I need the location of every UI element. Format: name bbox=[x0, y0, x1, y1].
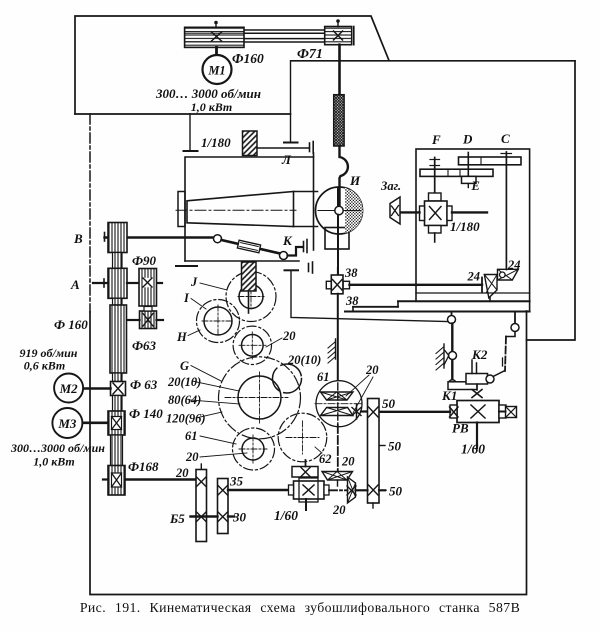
grinding spindle shaft from Ф71 bbox=[338, 45, 341, 95]
svg-text:Ф 140: Ф 140 bbox=[129, 406, 163, 421]
svg-text:20: 20 bbox=[185, 450, 199, 464]
machine outline: top motor box bbox=[75, 16, 389, 114]
svg-text:К2: К2 bbox=[471, 347, 488, 362]
gear J bbox=[226, 272, 276, 322]
gear bar F-E bbox=[420, 169, 493, 176]
svg-text:C: C bbox=[501, 131, 510, 146]
gear G big bbox=[219, 357, 301, 439]
svg-text:К1: К1 bbox=[441, 388, 457, 403]
bracket roller 2 bbox=[514, 312, 516, 324]
svg-text:24: 24 bbox=[507, 258, 521, 272]
K1 rod bbox=[451, 324, 453, 352]
svg-text:И: И bbox=[349, 173, 361, 188]
gear A block bbox=[108, 268, 127, 298]
shaft D bbox=[467, 153, 469, 177]
vertical gear bar 50 bbox=[368, 399, 380, 504]
svg-text:Ф71: Ф71 bbox=[297, 47, 323, 62]
svg-text:20(10): 20(10) bbox=[287, 353, 321, 367]
pulley Ф160 tall bbox=[110, 305, 127, 373]
hatched block lower bbox=[242, 262, 257, 291]
motor M2 bbox=[54, 374, 83, 403]
svg-text:30: 30 bbox=[232, 510, 247, 525]
machine outline: right edge bbox=[527, 61, 576, 340]
gear 62 circle bbox=[278, 413, 327, 462]
motor M3 bbox=[52, 408, 82, 438]
pulley Ф168 with bearing bbox=[108, 466, 125, 496]
spindle cone bbox=[187, 192, 294, 227]
gear 20 bottom bbox=[233, 428, 275, 470]
spindle flange bbox=[178, 192, 185, 227]
wheel bracket bbox=[325, 228, 349, 250]
svg-text:1,0 кВт: 1,0 кВт bbox=[191, 100, 233, 114]
motor M2 shaft bbox=[83, 387, 111, 390]
svg-text:Ф 160: Ф 160 bbox=[54, 317, 88, 332]
belt end cap bbox=[353, 27, 355, 45]
gear Ф140 with bearing bbox=[108, 411, 125, 435]
bevel 62 right flag bbox=[348, 477, 356, 503]
pulley Ф63 with bearing bbox=[111, 382, 126, 396]
shaft from 1/60 to bevels and bar bbox=[329, 489, 348, 491]
bearing right of 61 bbox=[356, 404, 358, 419]
svg-text:300…3000 об/мин: 300…3000 об/мин bbox=[10, 441, 105, 455]
upper bevel 61 bbox=[321, 392, 354, 400]
gear 20(10) small bbox=[273, 364, 302, 393]
flexible coupling (hatched) bbox=[334, 95, 344, 146]
gear 20 upper bbox=[233, 326, 271, 364]
bracket roller 1 bbox=[451, 312, 453, 316]
bearing on shaft at flag bbox=[347, 486, 356, 495]
svg-text:М1: М1 bbox=[207, 64, 225, 78]
bed bottom line bbox=[345, 311, 530, 313]
spring link S-curve bbox=[340, 146, 348, 214]
bottom gear bar 20 bbox=[200, 464, 202, 470]
svg-text:20: 20 bbox=[332, 503, 346, 517]
svg-text:F: F bbox=[431, 132, 441, 147]
svg-text:50: 50 bbox=[389, 484, 403, 499]
gear E bbox=[462, 176, 477, 183]
shaft C down bbox=[505, 152, 507, 270]
svg-text:E: E bbox=[471, 179, 480, 193]
svg-text:G: G bbox=[180, 359, 189, 373]
pulley above 1/60 bbox=[292, 467, 318, 478]
svg-text:20: 20 bbox=[282, 329, 296, 343]
svg-text:М3: М3 bbox=[57, 416, 77, 431]
neck bbox=[111, 435, 123, 466]
headstock lower ticks bbox=[285, 269, 299, 271]
support 1/180 hanger bbox=[189, 114, 191, 151]
workpiece Заг center bbox=[390, 197, 400, 224]
lower bevel 61 bbox=[321, 408, 354, 416]
wheel shaft down bbox=[337, 215, 339, 275]
belt drive lines between pulleys bbox=[244, 30, 325, 42]
svg-text:300… 3000 об/мин: 300… 3000 об/мин bbox=[155, 86, 261, 101]
svg-text:1/60: 1/60 bbox=[274, 508, 298, 523]
lever K zigzag end bbox=[288, 247, 304, 256]
lever K link bbox=[222, 240, 281, 254]
K2 box bbox=[466, 374, 488, 385]
gear J shaft bbox=[248, 291, 250, 313]
bottom gear bar 35/30 bbox=[218, 479, 229, 534]
svg-text:Л: Л bbox=[281, 152, 292, 167]
worm drive 1/180 bbox=[429, 193, 442, 201]
bevel 24 end cap bbox=[481, 278, 483, 293]
shaft F bbox=[434, 158, 436, 197]
svg-text:20: 20 bbox=[341, 455, 355, 469]
pulley Ф160 (left) bbox=[185, 27, 244, 47]
gearbox PB bbox=[457, 401, 499, 423]
svg-text:Ф 63: Ф 63 bbox=[130, 377, 158, 392]
wall anchor on vertical shaft bbox=[335, 339, 337, 359]
gear bar D-C bbox=[459, 157, 522, 165]
pulley Ф71 (right) bbox=[325, 27, 352, 45]
ratchet x above PB bbox=[476, 384, 478, 390]
svg-text:1/180: 1/180 bbox=[450, 219, 480, 234]
svg-text:24: 24 bbox=[467, 270, 481, 284]
svg-text:А: А bbox=[70, 277, 80, 292]
feed rod down-right bbox=[291, 270, 448, 321]
svg-text:Б5: Б5 bbox=[169, 511, 185, 526]
svg-text:Ф90: Ф90 bbox=[132, 253, 157, 268]
gear Ф63 with bearing bbox=[140, 311, 157, 329]
vertical shaft 38 to 61 unit bbox=[337, 294, 339, 383]
svg-text:0,6 кВт: 0,6 кВт bbox=[24, 359, 66, 373]
bevel 24 shaft to bed bbox=[489, 298, 491, 302]
wheel shaft inside bbox=[337, 188, 339, 229]
svg-text:М2: М2 bbox=[59, 381, 79, 396]
gear I/H bbox=[197, 300, 240, 343]
hatched block upper bbox=[243, 131, 258, 156]
reverse unit 61: circle bbox=[316, 381, 362, 427]
svg-text:1/180: 1/180 bbox=[201, 135, 231, 150]
centerlines 61 bbox=[315, 403, 363, 405]
motor M1 shaft bbox=[215, 47, 218, 55]
spindle centerline bbox=[176, 209, 296, 211]
PB output bearing bbox=[506, 407, 517, 418]
svg-text:50: 50 bbox=[388, 439, 402, 454]
svg-text:К: К bbox=[282, 233, 293, 248]
svg-text:62: 62 bbox=[319, 452, 332, 466]
workpiece shaft bbox=[400, 211, 420, 213]
shaft 61 down to 62 bevels bbox=[337, 425, 339, 472]
spindle housing cylinder bbox=[294, 191, 318, 193]
shaft to gearbox 38 bbox=[337, 268, 339, 275]
svg-text:38: 38 bbox=[344, 266, 358, 280]
neck bbox=[113, 396, 123, 412]
bevel 62 upper flag bbox=[322, 472, 353, 481]
headstock box bbox=[185, 157, 314, 261]
motor M3 shaft bbox=[82, 421, 108, 424]
machine outline: upper right horizontal edge bbox=[291, 60, 575, 62]
neck bbox=[113, 373, 123, 382]
gear Ф90 bbox=[139, 269, 157, 307]
bevel 24 down flag bbox=[484, 275, 497, 298]
svg-text:20: 20 bbox=[175, 466, 189, 480]
headstock right edge bbox=[313, 153, 315, 250]
svg-text:Ф63: Ф63 bbox=[132, 338, 157, 353]
svg-text:РВ: РВ bbox=[452, 421, 469, 436]
svg-text:61: 61 bbox=[317, 370, 330, 384]
support tick under headstock corner bbox=[176, 265, 197, 267]
svg-text:61: 61 bbox=[185, 429, 198, 443]
svg-text:1/60: 1/60 bbox=[461, 442, 485, 457]
svg-text:120(96): 120(96) bbox=[166, 412, 206, 426]
lever K pivot 1 bbox=[104, 233, 106, 242]
worm gearbox 1/60 bbox=[294, 481, 325, 499]
K1 lever bar bbox=[448, 382, 477, 390]
worm 1/60 down stub bbox=[305, 499, 307, 510]
svg-text:Ј: Ј bbox=[190, 275, 198, 289]
bearing at PB input bbox=[450, 407, 459, 417]
svg-text:D: D bbox=[462, 132, 473, 147]
neck B-A bbox=[113, 253, 123, 269]
svg-text:Рис. 191. Кинематическая схема: Рис. 191. Кинематическая схема зубошлифо… bbox=[80, 600, 520, 615]
svg-text:20: 20 bbox=[365, 363, 379, 377]
rod from hatched block bbox=[257, 147, 310, 149]
PB down stub bbox=[476, 423, 478, 449]
svg-text:1,0 кВт: 1,0 кВт bbox=[33, 455, 75, 469]
svg-text:Ф160: Ф160 bbox=[232, 51, 264, 66]
gearbox FDC box bbox=[416, 149, 530, 301]
bed top line bbox=[398, 300, 530, 302]
bevel 24 right flag bbox=[498, 269, 519, 280]
wall anchor K1 bbox=[443, 344, 445, 368]
svg-text:Н: Н bbox=[176, 330, 188, 344]
machine outline: lower right edge bbox=[90, 311, 527, 595]
shaft A stubs bbox=[103, 279, 105, 287]
svg-text:80(64): 80(64) bbox=[168, 393, 201, 407]
svg-text:В: В bbox=[73, 231, 83, 246]
shaft 35 to worm 1/60 bbox=[228, 489, 294, 491]
rod from C shaft to K2 bbox=[505, 337, 506, 372]
left gear column: gear B block bbox=[108, 223, 127, 253]
bed mid line bbox=[353, 306, 398, 308]
svg-text:I: I bbox=[183, 291, 190, 305]
shaft from Ф168 bbox=[103, 478, 108, 480]
svg-text:50: 50 bbox=[382, 396, 396, 411]
hanger Л vertical with bottom bar bbox=[290, 61, 292, 143]
motor M1 bbox=[203, 55, 232, 84]
horizontal shaft 24 bbox=[350, 284, 483, 286]
double tick end bbox=[309, 143, 311, 152]
svg-text:35: 35 bbox=[229, 474, 244, 489]
svg-text:Ф168: Ф168 bbox=[128, 459, 159, 474]
gearbox 38 bbox=[331, 275, 343, 294]
svg-text:Заг.: Заг. bbox=[380, 179, 401, 193]
machine outline: top box bottom edge bbox=[75, 113, 291, 115]
grinding wheel И bbox=[316, 187, 363, 234]
shaft Б5-30 bbox=[191, 515, 218, 517]
shaft PB left bbox=[379, 411, 450, 413]
